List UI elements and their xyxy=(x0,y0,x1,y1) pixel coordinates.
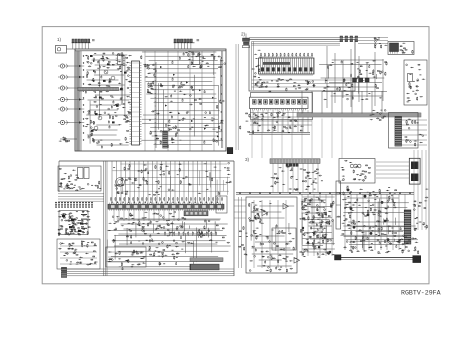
bottom bus block4 xyxy=(335,257,421,259)
SAW filter box xyxy=(388,42,414,55)
EW correction box xyxy=(339,159,375,184)
vertical wires block2 to bus xyxy=(302,91,382,114)
component cluster block4 mid2 xyxy=(301,200,334,225)
drops from bus block4 xyxy=(345,194,405,250)
bottom-left sub-box xyxy=(57,239,100,269)
component cluster vert-amp top xyxy=(249,201,272,215)
wire grid block3 lower-mid2 xyxy=(117,219,228,245)
op-amp U401 xyxy=(262,210,268,216)
terminal blob right xyxy=(413,256,421,263)
wires below CN401 xyxy=(273,163,318,192)
component cluster block4 bottom rows xyxy=(341,228,416,254)
connector CN103 cluster xyxy=(59,137,77,142)
AV input jack J6 xyxy=(58,120,69,124)
wire grid lower block3 xyxy=(107,220,231,270)
IC U101 (video/chroma processor) xyxy=(130,61,142,145)
vertical wires block1 right xyxy=(145,51,214,151)
connector CN202 (CRT) xyxy=(395,117,402,147)
wires block3-to-block4 xyxy=(234,197,246,268)
key matrix arrows xyxy=(81,215,87,229)
block2 audio sub-box xyxy=(251,93,313,120)
section label 3 xyxy=(245,157,250,162)
top-left sub-box block3 xyxy=(58,166,101,191)
connector CN302 xyxy=(190,264,219,270)
section label 1 xyxy=(57,37,62,42)
component cluster mid-upper block4 xyxy=(299,197,355,224)
gray bar (bus) block3 xyxy=(190,258,223,262)
choke L401 xyxy=(350,164,361,168)
interconnect wires xyxy=(236,44,238,150)
AV input jack J2 xyxy=(58,75,69,79)
terminal blob left xyxy=(335,255,342,260)
vertical amp box xyxy=(246,197,297,273)
audio section bus xyxy=(249,110,310,134)
resistor array row xyxy=(55,204,92,207)
CRT socket board box xyxy=(389,113,419,149)
AV input jack J3 xyxy=(58,86,69,90)
transistor Q102 xyxy=(111,76,115,80)
connector CN401 pins xyxy=(286,164,298,167)
component cluster upper mid block3 xyxy=(113,162,231,195)
wires CN201 to right xyxy=(358,38,388,44)
bottom bus wires xyxy=(62,269,234,276)
vertical bus x156 xyxy=(155,62,157,148)
wires mid block4 xyxy=(302,194,332,256)
connector CN101 xyxy=(72,39,91,49)
component cluster right of CRT conn xyxy=(404,118,423,146)
svg-text:2): 2) xyxy=(241,32,246,37)
connector CN402 (yoke) xyxy=(404,210,411,244)
main horizontal bus block4 xyxy=(236,192,414,194)
component cluster right of U101 top xyxy=(185,51,226,69)
wires jacks to bus xyxy=(69,60,95,124)
wire grid right field xyxy=(141,52,223,147)
op-amp U403 xyxy=(294,258,300,264)
wire grid right cluster block2 xyxy=(319,60,387,100)
component cluster below U201 xyxy=(254,78,316,92)
vertical wires right column xyxy=(414,150,426,230)
junction dot row xyxy=(55,202,93,204)
component row mid xyxy=(165,231,217,235)
IF input filter Z201 xyxy=(243,34,250,48)
bus wires left xyxy=(76,51,122,151)
component cluster EW box xyxy=(341,160,371,181)
component cluster between blocks xyxy=(239,226,248,255)
wire grid mid block4 xyxy=(301,200,333,255)
IC U303 (jungle IC) xyxy=(108,203,224,211)
flyback T401 xyxy=(409,158,420,184)
block3 outline xyxy=(59,161,234,276)
IC U304 xyxy=(184,211,208,216)
regulator Q204 xyxy=(408,74,413,82)
wire grid upper mid block3 xyxy=(112,164,230,196)
component cluster right column xyxy=(413,189,429,231)
component cluster bottom mid xyxy=(148,241,185,266)
tuner supply box xyxy=(404,60,427,105)
component cluster mid block4 xyxy=(299,224,335,258)
vertical wires right cluster xyxy=(327,46,383,108)
connector CN201 grid xyxy=(340,36,358,42)
component row U301 bottom xyxy=(59,181,102,191)
component row above U201 xyxy=(261,53,313,57)
component cluster (R/C field lower-left of U101) xyxy=(85,95,132,147)
block2 outer box xyxy=(249,38,355,91)
wires block2-to-block4 interconnect xyxy=(252,119,342,159)
AV input jack J4 xyxy=(58,97,69,101)
vertical bus mid block3 xyxy=(103,161,107,276)
board interconnect bus (gray) xyxy=(297,113,421,117)
AV input jack J1 xyxy=(58,64,69,68)
component cluster right of T402 xyxy=(342,186,397,241)
component cluster top small xyxy=(374,37,387,48)
component cluster block3 mid-low xyxy=(113,218,230,245)
section label 2 xyxy=(241,32,246,37)
junction connector CN105 xyxy=(227,148,233,154)
AV input jack J5 xyxy=(58,107,69,111)
double line right edge xyxy=(221,51,223,148)
connector CN102 xyxy=(174,39,195,49)
IC U201 (IF/chroma) xyxy=(259,56,315,76)
IC U202 (audio processor) xyxy=(250,97,309,110)
component cluster block2 left margin xyxy=(251,50,263,86)
sub-circuit box X101 xyxy=(191,52,201,65)
component cluster in SAW box xyxy=(399,43,413,54)
component cluster tuner supply xyxy=(406,64,425,102)
dense label cluster (key matrix) xyxy=(58,211,91,236)
IC U302 (eeprom) xyxy=(84,168,89,179)
SAW filter Z202 xyxy=(390,43,399,54)
vert-amp box drops xyxy=(254,200,286,268)
component cluster vert-amp bottom xyxy=(249,228,296,273)
sub-box right-mid block3 xyxy=(106,247,146,267)
border frame xyxy=(42,27,429,284)
bus wires block2 top xyxy=(252,42,341,46)
dark marks row vert-amp xyxy=(249,215,264,224)
component row above U303 xyxy=(111,197,223,203)
op-amp U402 xyxy=(283,204,289,210)
wires flyback left xyxy=(376,162,409,178)
transistor Q202 xyxy=(359,78,363,82)
transformer T301 xyxy=(116,178,125,187)
bus wires block2 left xyxy=(252,42,254,91)
key matrix box xyxy=(59,211,88,235)
vertical wire bundle to U303 xyxy=(112,161,220,204)
component cluster right mid xyxy=(323,60,387,100)
block1 main board outline xyxy=(75,49,226,151)
component cluster (sync network) xyxy=(149,98,224,144)
wire grid vert-amp box xyxy=(251,203,295,269)
connector CN301 xyxy=(62,268,67,278)
IC U301 (reset) xyxy=(78,168,84,179)
component cluster left of bus x156 xyxy=(141,55,157,94)
wire grid right section block4 xyxy=(343,198,408,244)
component cluster below CN401 xyxy=(270,166,323,190)
svg-text:3): 3) xyxy=(245,157,250,162)
wires audio section xyxy=(250,113,312,126)
U303 bottom drops xyxy=(114,210,179,221)
component cluster mid right xyxy=(148,83,194,98)
arrowheads right field xyxy=(160,66,219,137)
component cluster (R/C field left of U101) xyxy=(85,53,132,132)
wires below U201 xyxy=(252,80,353,87)
small IC U102 xyxy=(116,54,125,65)
tuner TU101 xyxy=(56,46,76,54)
component cluster reset area xyxy=(59,168,78,189)
component cluster in right-mid box xyxy=(108,250,146,268)
component cluster in bottom-left box xyxy=(58,240,97,265)
transistor Q104 xyxy=(94,126,98,130)
sub-box U303 right xyxy=(216,196,227,213)
capacitor C101 xyxy=(92,40,95,41)
component cluster bottom-right xyxy=(396,237,418,254)
delay line DL101 xyxy=(78,87,119,91)
svg-text:1): 1) xyxy=(57,37,62,42)
H-drive transformer T402 xyxy=(336,181,341,229)
transistor Q203 xyxy=(365,78,369,82)
transistor Q103 xyxy=(98,116,102,120)
capacitor C102 xyxy=(197,40,200,41)
connector CN104 (vertical) xyxy=(163,131,168,148)
connector CN401 bar xyxy=(270,159,320,164)
svg-text:RGBTV-29FA: RGBTV-29FA xyxy=(401,290,441,297)
component cluster below U303 xyxy=(108,211,184,231)
caption RGBTV-29FA xyxy=(401,290,441,297)
wire grid block4 mid2 xyxy=(301,197,335,252)
wire grid left field xyxy=(85,55,130,148)
wire rows block4 bottom xyxy=(340,226,417,252)
wires CRT right xyxy=(402,120,428,145)
vert-amp sub-box xyxy=(272,228,296,250)
transistor Q201 xyxy=(353,78,357,82)
component cluster below U202 xyxy=(240,112,304,134)
transistor Q101 xyxy=(104,70,108,74)
wires resistor array xyxy=(58,194,104,201)
component cluster on bus xyxy=(369,109,386,120)
